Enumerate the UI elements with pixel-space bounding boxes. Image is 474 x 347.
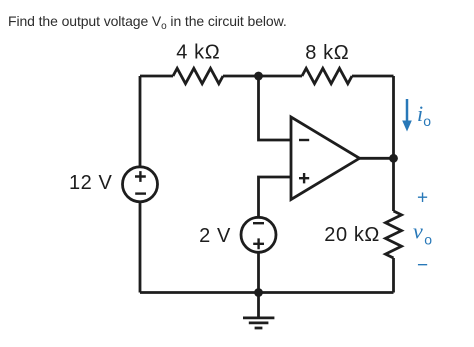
resistor R1 4 kOhm zigzag [173, 68, 223, 83]
VS2 minus sign [253, 222, 264, 224]
wire noninverting input branch [259, 177, 292, 217]
VS2 plus sign [253, 238, 264, 249]
svg-text:12 V: 12 V [69, 172, 113, 194]
wire 2V source to ground node [257, 253, 260, 293]
VS1 minus sign [135, 192, 146, 194]
wire op-amp output [360, 157, 394, 160]
voltage source VS1 12 V circle [123, 167, 158, 202]
wire top-right horizontal [352, 75, 394, 78]
wire bottom horizontal [140, 291, 394, 294]
junction node ground [254, 288, 263, 297]
svg-text:−: − [417, 255, 428, 276]
resistor R3 20 kOhm vertical zigzag [386, 211, 402, 258]
title text [8, 13, 287, 29]
ground bars [243, 318, 274, 328]
junction node A (4k/8k/inverting) [254, 72, 263, 81]
resistor R2 8 kOhm zigzag [302, 68, 352, 83]
ground stem [257, 293, 260, 318]
op-amp U1 triangle [291, 117, 360, 200]
op-amp inverting pin minus sign [299, 139, 309, 141]
wire left vertical lower [139, 203, 142, 293]
voltage source VS2 2 V circle [241, 217, 276, 252]
svg-text:i: i [417, 101, 423, 126]
svg-text:8 kΩ: 8 kΩ [305, 42, 349, 64]
current arrow io [406, 99, 409, 123]
svg-text:4 kΩ: 4 kΩ [176, 42, 220, 64]
svg-text:2 V: 2 V [199, 225, 231, 247]
wire right vertical below 20k [392, 258, 395, 293]
wire top-left horizontal [140, 75, 173, 78]
op-amp noninverting pin plus sign [299, 173, 309, 183]
wire right vertical [392, 76, 395, 211]
wire top-middle horizontal [223, 75, 302, 78]
wire inverting input branch [259, 76, 292, 140]
svg-text:20 kΩ: 20 kΩ [324, 224, 380, 246]
svg-text:o: o [423, 113, 431, 129]
junction node output [389, 154, 398, 163]
VS1 plus sign [135, 171, 146, 182]
svg-text:o: o [424, 231, 432, 247]
svg-text:+: + [417, 188, 428, 209]
wire left vertical upper [139, 76, 142, 166]
svg-text:v: v [413, 219, 423, 244]
